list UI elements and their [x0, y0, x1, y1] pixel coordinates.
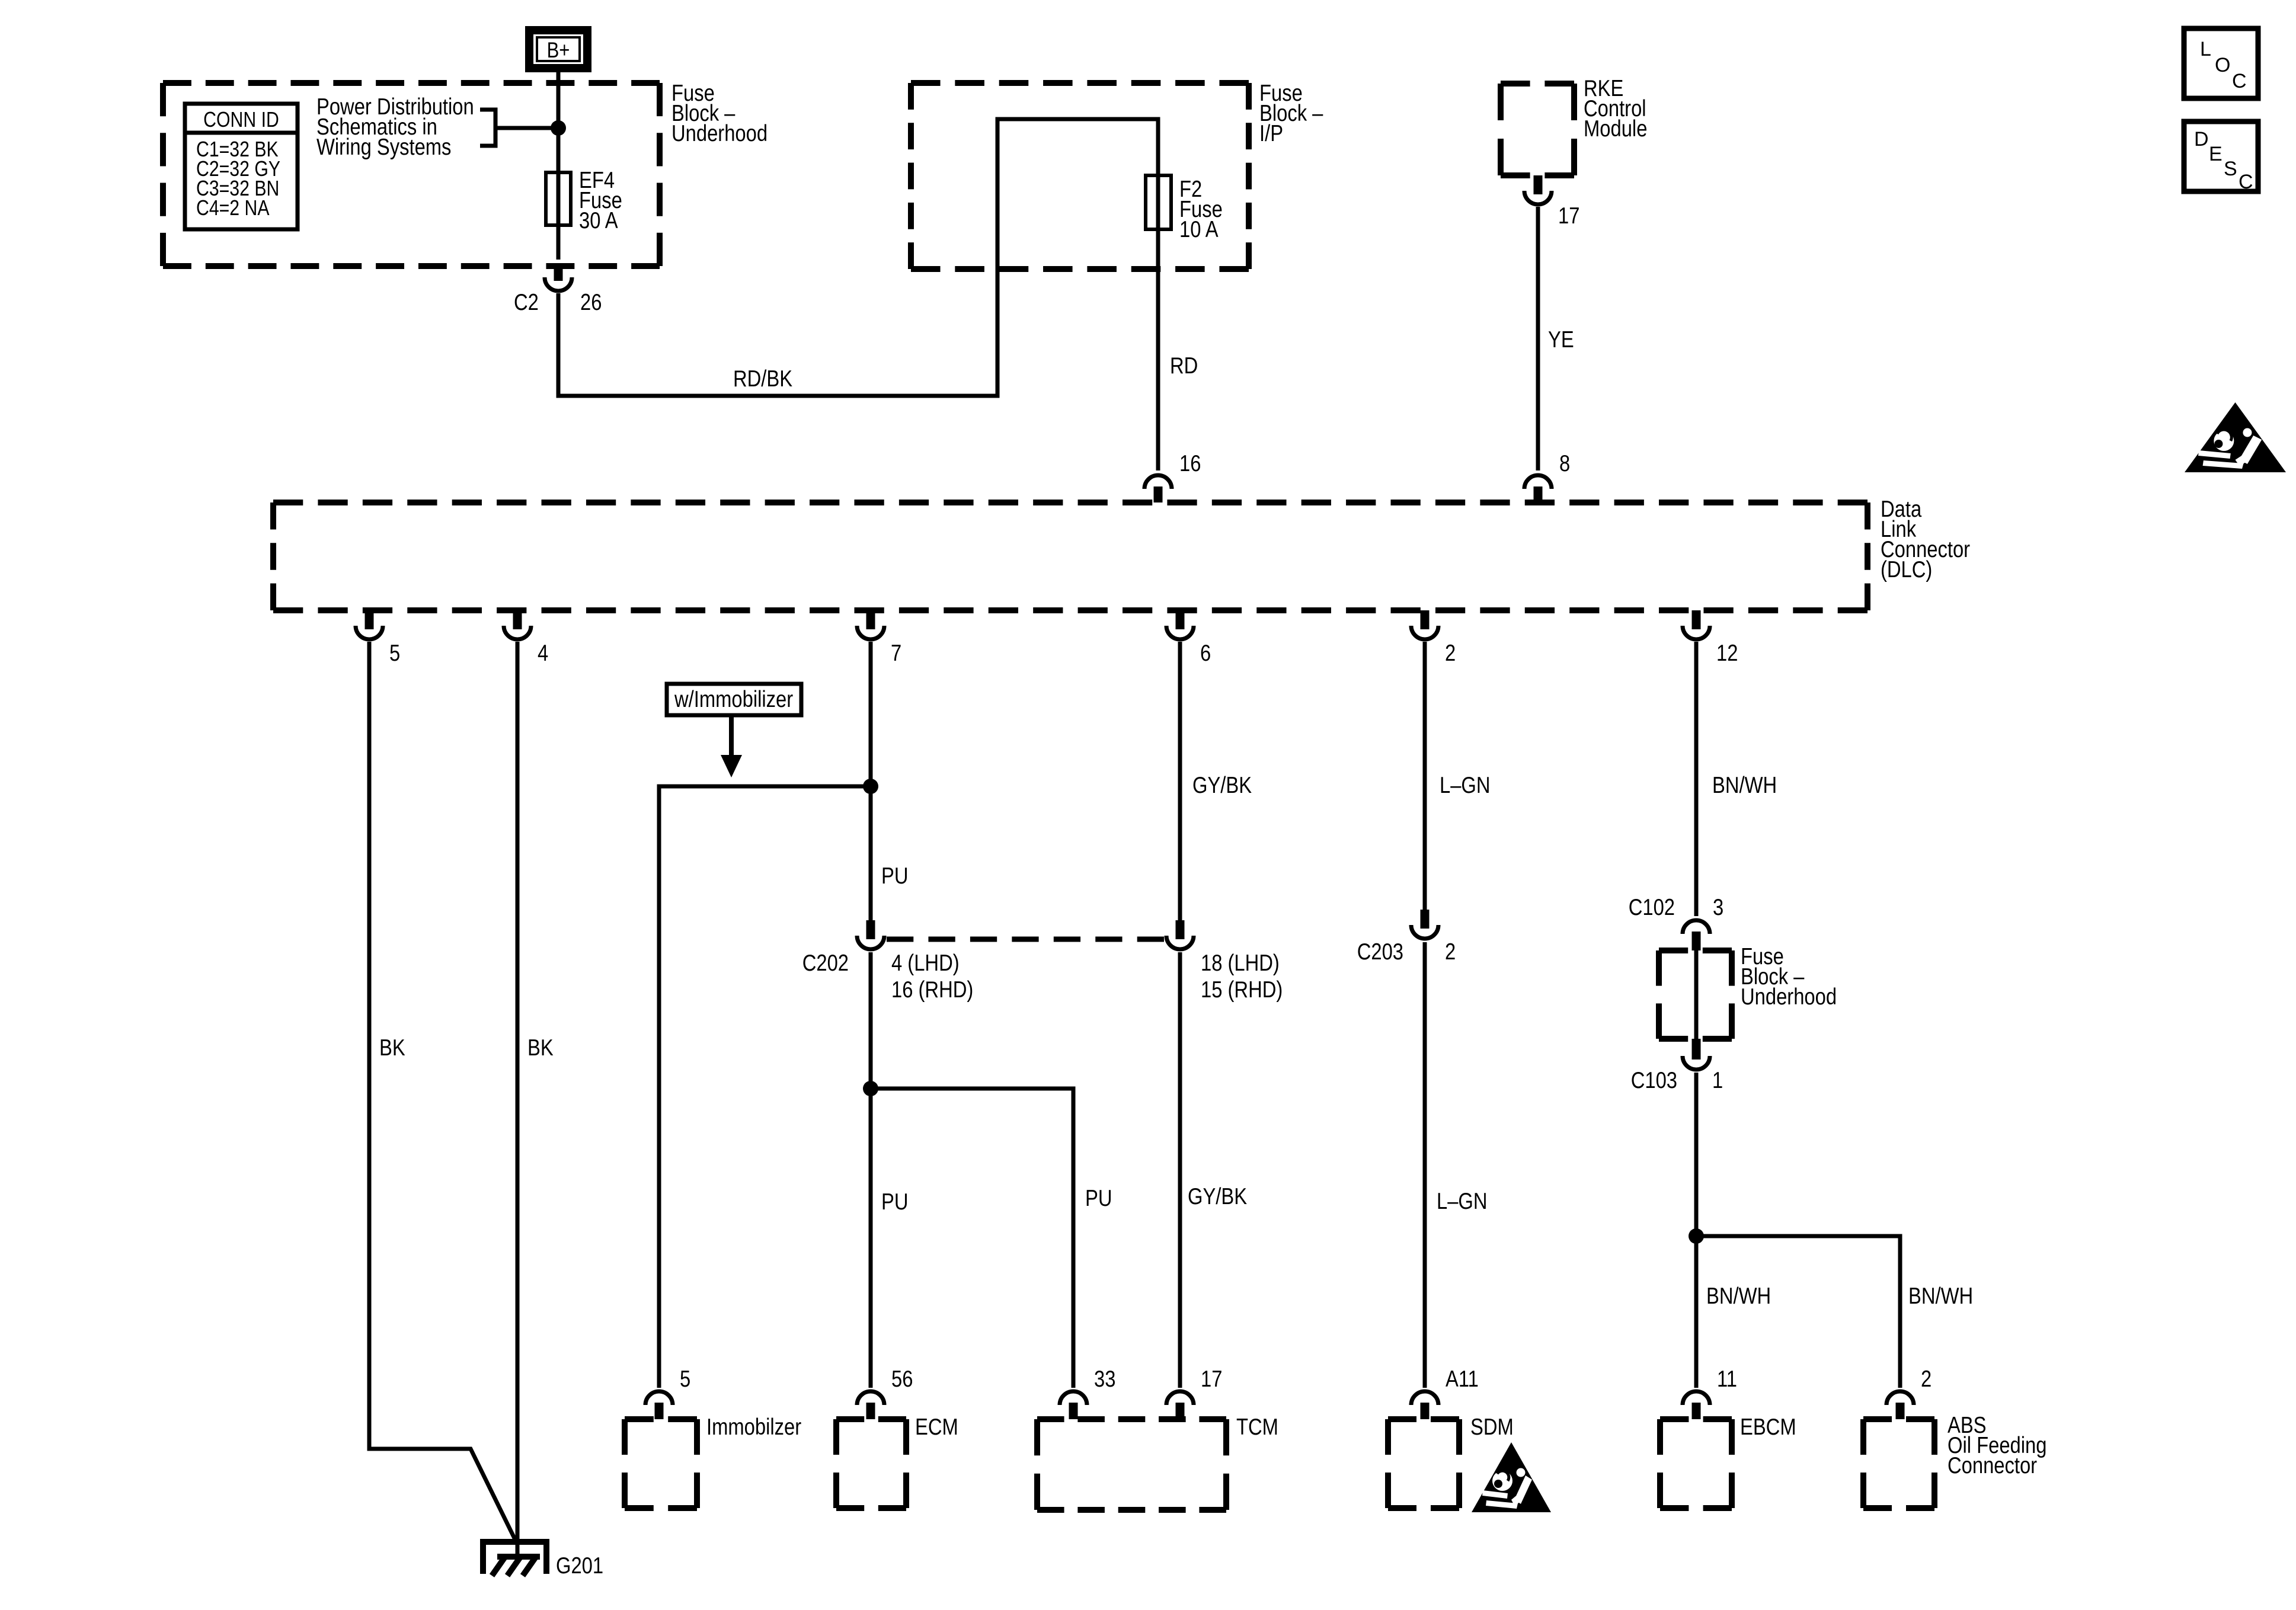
svg-text:GY/BK: GY/BK	[1188, 1183, 1247, 1209]
stub RKE pin 17	[1534, 175, 1543, 194]
junction PU branch	[863, 1081, 878, 1096]
connector ABS pin 2	[1886, 1391, 1914, 1405]
stub DLC pin 16	[1154, 486, 1163, 502]
stub C103	[1692, 1039, 1701, 1060]
connector 18 LHD	[1166, 936, 1194, 949]
connector C202	[857, 936, 884, 949]
svg-text:RD/BK: RD/BK	[733, 365, 792, 391]
battery feed B+ symbol	[529, 30, 587, 68]
note Power Distribution Schematics in Wiring Systems	[316, 93, 474, 159]
svg-text:BN/WH: BN/WH	[1908, 1282, 1973, 1308]
svg-text:12: 12	[1716, 639, 1738, 665]
wire GY/BK to TCM 17	[1178, 952, 1182, 1388]
label C202	[802, 949, 849, 975]
svg-text:TCM: TCM	[1236, 1413, 1278, 1439]
connector C103	[1683, 1056, 1710, 1070]
connector SDM pin A11	[1411, 1391, 1438, 1405]
fuse F2	[1146, 175, 1171, 229]
wire RD/BK	[558, 119, 1158, 470]
label BK right	[527, 1034, 554, 1060]
label Fuse Block I/P	[1259, 79, 1323, 146]
svg-text:FuseBlock –Underhood: FuseBlock –Underhood	[1741, 943, 1837, 1009]
svg-text:RKEControlModule: RKEControlModule	[1584, 75, 1647, 141]
ABS box	[1863, 1419, 1934, 1508]
svg-text:2: 2	[1921, 1365, 1932, 1391]
label PU right	[1085, 1185, 1112, 1211]
ECM box	[836, 1419, 906, 1508]
svg-text:DataLinkConnector(DLC): DataLinkConnector(DLC)	[1881, 495, 1970, 582]
ground G201	[483, 1542, 546, 1574]
svg-text:8: 8	[1559, 450, 1570, 476]
svg-text:5: 5	[389, 639, 400, 665]
connector DLC pin 2	[1411, 626, 1438, 639]
svg-text:17: 17	[1201, 1365, 1222, 1391]
svg-text:56: 56	[891, 1365, 913, 1391]
label RKE Control Module	[1584, 75, 1647, 141]
pin 7	[891, 639, 901, 665]
stub TCM pin 17	[1176, 1403, 1185, 1419]
wire BK from DLC pin 5	[369, 642, 516, 1541]
svg-text:A11: A11	[1446, 1365, 1479, 1391]
pin 17	[1558, 202, 1579, 228]
wire PU from DLC pin 7	[869, 642, 873, 920]
pin 6	[1200, 639, 1211, 665]
wire BN/WH to EBCM	[1694, 1073, 1699, 1388]
connector C102	[1683, 920, 1710, 934]
svg-text:PU: PU	[1085, 1185, 1112, 1211]
svg-text:5: 5	[680, 1365, 690, 1391]
svg-text:C: C	[2232, 70, 2247, 92]
pin C203 2	[1445, 938, 1456, 964]
label G201	[556, 1552, 603, 1578]
svg-text:CONN ID: CONN ID	[203, 108, 279, 132]
pin 4 LHD 16 RHD	[891, 949, 973, 1002]
wire immobilizer branch	[659, 786, 871, 1388]
svg-text:E: E	[2209, 143, 2223, 165]
airbag warning triangle SDM	[1472, 1442, 1551, 1512]
label C103	[1631, 1067, 1677, 1093]
pin 4	[538, 639, 548, 665]
svg-text:C: C	[2239, 171, 2253, 193]
connector DLC pin 6	[1166, 626, 1194, 639]
fuse block underhood box	[163, 83, 660, 266]
label C2	[514, 289, 539, 315]
stub C2	[554, 264, 563, 281]
fuse block underhood small box	[1659, 950, 1732, 1039]
wire PU branch to TCM 33	[871, 1089, 1073, 1388]
svg-text:Immobilzer: Immobilzer	[706, 1413, 801, 1439]
svg-text:FuseBlock –Underhood: FuseBlock –Underhood	[671, 79, 768, 146]
LOC box	[2184, 28, 2258, 98]
pin 2	[1445, 639, 1456, 665]
wire YE	[1536, 207, 1540, 470]
stub DLC pin 12	[1692, 610, 1701, 629]
svg-text:18 (LHD)15 (RHD): 18 (LHD)15 (RHD)	[1201, 949, 1283, 1002]
svg-text:SDM: SDM	[1470, 1413, 1514, 1439]
label L-GN upper	[1440, 772, 1491, 798]
pin label TCM pin 33	[1094, 1365, 1115, 1391]
svg-text:FuseBlock –I/P: FuseBlock –I/P	[1259, 79, 1323, 146]
stub DLC pin 5	[365, 610, 374, 629]
pin label ECM pin 56	[891, 1365, 913, 1391]
label YE	[1548, 326, 1574, 352]
label w/Immobilizer	[674, 686, 793, 712]
svg-text:BK: BK	[527, 1034, 554, 1060]
svg-text:3: 3	[1713, 894, 1723, 920]
connector Immobilizer pin 5	[645, 1391, 673, 1405]
svg-text:F2Fuse10 A: F2Fuse10 A	[1179, 175, 1223, 242]
stub C102	[1692, 932, 1701, 950]
pin label Immobilizer pin 5	[680, 1365, 690, 1391]
stub Immobilizer pin 5	[655, 1403, 664, 1419]
DESC box	[2184, 121, 2258, 191]
pin 8	[1559, 450, 1570, 476]
stub DLC pin 4	[513, 610, 522, 629]
connector EBCM pin 11	[1683, 1391, 1710, 1405]
svg-text:PU: PU	[881, 1188, 908, 1214]
table rows C1-C4	[196, 138, 280, 220]
stub DLC pin 2	[1421, 610, 1430, 629]
wire BN/WH branch to ABS	[1696, 1236, 1900, 1388]
svg-text:L: L	[2200, 38, 2211, 60]
label C203	[1357, 938, 1403, 964]
RKE control module box	[1501, 84, 1574, 175]
label fuse block underhood small	[1741, 943, 1837, 1009]
wire L-GN from DLC pin 2	[1423, 642, 1427, 910]
wire PU C202 to ECM	[869, 952, 873, 1388]
svg-text:17: 17	[1558, 202, 1579, 228]
svg-text:C102: C102	[1629, 894, 1675, 920]
label ECM	[915, 1413, 958, 1439]
stub ECM pin 56	[866, 1403, 875, 1419]
connector DLC pin 8	[1524, 475, 1552, 489]
label ABS Oil Feeding Connector	[1948, 1411, 2046, 1478]
svg-text:11: 11	[1717, 1365, 1737, 1391]
pin label TCM pin 17	[1201, 1365, 1222, 1391]
svg-text:EF4Fuse30 A: EF4Fuse30 A	[579, 167, 622, 233]
w/Immobilizer callout box	[667, 684, 801, 715]
pin label SDM pin A11	[1446, 1365, 1479, 1391]
connector DLC pin 12	[1683, 626, 1710, 639]
svg-text:Power DistributionSchematics i: Power DistributionSchematics inWiring Sy…	[316, 93, 474, 159]
connector DLC pin 4	[504, 626, 531, 639]
fuse block I/P box	[911, 83, 1249, 269]
svg-text:RD: RD	[1170, 352, 1198, 378]
connector DLC pin 16	[1144, 475, 1172, 489]
wire B+ to EF4 fuse	[557, 68, 561, 260]
label Data Link Connector DLC	[1881, 495, 1970, 582]
connector RKE pin 17	[1524, 191, 1552, 204]
pin 18 LHD 15 RHD	[1201, 949, 1283, 1002]
junction at B+ wire	[551, 120, 566, 136]
svg-text:L–GN: L–GN	[1437, 1188, 1488, 1214]
stub TCM pin 33	[1069, 1403, 1078, 1419]
connector TCM pin 33	[1060, 1391, 1087, 1405]
svg-text:7: 7	[891, 639, 901, 665]
label Immobilzer	[706, 1413, 801, 1439]
svg-text:33: 33	[1094, 1365, 1115, 1391]
stub connector 18	[1176, 920, 1185, 939]
CONN ID table frame	[185, 104, 298, 229]
label RD/BK	[733, 365, 792, 391]
stub DLC pin 8	[1534, 486, 1543, 502]
junction BN/WH branch	[1689, 1228, 1704, 1244]
stub SDM pin A11	[1421, 1403, 1430, 1419]
pin 16	[1179, 450, 1201, 476]
svg-text:O: O	[2215, 54, 2230, 76]
fuse EF4	[546, 172, 571, 225]
connector DLC pin 7	[857, 626, 884, 639]
label B+	[547, 39, 570, 63]
label EBCM	[1740, 1413, 1796, 1439]
stub DLC pin 6	[1176, 610, 1185, 629]
bracket from note to wire	[480, 110, 558, 146]
label F2 Fuse 10 A	[1179, 175, 1223, 242]
svg-text:C202: C202	[802, 949, 849, 975]
data link connector DLC box	[273, 502, 1868, 610]
wire L-GN to SDM	[1423, 942, 1427, 1388]
label Fuse Block Underhood	[671, 79, 768, 146]
svg-text:B+: B+	[547, 39, 570, 63]
svg-text:2: 2	[1445, 639, 1456, 665]
svg-text:GY/BK: GY/BK	[1192, 772, 1252, 798]
dashed link C202 to 18	[887, 937, 1164, 942]
label GY/BK lower	[1188, 1183, 1247, 1209]
svg-text:26: 26	[580, 289, 602, 315]
pin 26	[580, 289, 602, 315]
svg-text:16: 16	[1179, 450, 1201, 476]
svg-text:1: 1	[1712, 1067, 1723, 1093]
svg-text:C1=32 BKC2=32 GYC3=32 BNC4=2 N: C1=32 BKC2=32 GYC3=32 BNC4=2 NA	[196, 138, 280, 220]
wire BK from DLC pin 4	[516, 642, 520, 1557]
svg-text:EBCM: EBCM	[1740, 1413, 1796, 1439]
svg-text:2: 2	[1445, 938, 1456, 964]
Immobilizer box	[625, 1419, 697, 1508]
label RD	[1170, 352, 1198, 378]
stub ABS pin 2	[1896, 1403, 1905, 1419]
SDM box	[1388, 1419, 1459, 1508]
svg-text:PU: PU	[881, 862, 908, 888]
label GY/BK upper	[1192, 772, 1252, 798]
svg-text:4 (LHD)16 (RHD): 4 (LHD)16 (RHD)	[891, 949, 973, 1002]
label PU mid	[881, 1188, 908, 1214]
stub C202	[866, 920, 875, 939]
svg-text:BK: BK	[379, 1034, 405, 1060]
svg-text:4: 4	[538, 639, 548, 665]
stub EBCM pin 11	[1692, 1403, 1701, 1419]
svg-text:G201: G201	[556, 1552, 603, 1578]
pin 12	[1716, 639, 1738, 665]
svg-text:BN/WH: BN/WH	[1712, 772, 1777, 798]
label TCM	[1236, 1413, 1278, 1439]
label BK left	[379, 1034, 405, 1060]
svg-text:L–GN: L–GN	[1440, 772, 1491, 798]
svg-text:w/Immobilizer: w/Immobilizer	[674, 686, 793, 712]
svg-text:ABSOil FeedingConnector: ABSOil FeedingConnector	[1948, 1411, 2046, 1478]
svg-text:6: 6	[1200, 639, 1211, 665]
pin label ABS pin 2	[1921, 1365, 1932, 1391]
arrow from w/Immobilizer callout	[729, 715, 734, 759]
pin C103 1	[1712, 1067, 1723, 1093]
junction immobilizer branch	[863, 779, 878, 794]
svg-text:D: D	[2194, 128, 2209, 151]
TCM box	[1037, 1419, 1226, 1510]
label SDM	[1470, 1413, 1514, 1439]
label CONN ID	[203, 108, 279, 132]
svg-text:C203: C203	[1357, 938, 1403, 964]
connector TCM pin 17	[1166, 1391, 1194, 1405]
label BN/WH right	[1908, 1282, 1973, 1308]
svg-text:ECM: ECM	[915, 1413, 958, 1439]
svg-text:YE: YE	[1548, 326, 1574, 352]
svg-text:C2: C2	[514, 289, 539, 315]
label EF4 Fuse 30 A	[579, 167, 622, 233]
pin label EBCM pin 11	[1717, 1365, 1737, 1391]
EBCM box	[1660, 1419, 1732, 1508]
CONN ID table header divider	[185, 131, 298, 135]
svg-text:S: S	[2224, 158, 2237, 180]
pin 5	[389, 639, 400, 665]
label BN/WH upper	[1712, 772, 1777, 798]
svg-text:BN/WH: BN/WH	[1706, 1282, 1771, 1308]
label L-GN lower	[1437, 1188, 1488, 1214]
connector DLC pin 5	[356, 626, 383, 639]
label C102	[1629, 894, 1675, 920]
label PU upper	[881, 862, 908, 888]
connector ECM pin 56	[857, 1391, 884, 1405]
stub C203	[1421, 910, 1430, 929]
connector C203	[1411, 925, 1438, 939]
wire BN/WH from DLC pin 12	[1694, 642, 1699, 916]
svg-text:C103: C103	[1631, 1067, 1677, 1093]
wire inside small fuse block	[1694, 950, 1699, 1039]
airbag warning triangle top right	[2185, 402, 2286, 472]
pin C102 3	[1713, 894, 1723, 920]
wire GY/BK from DLC pin 6	[1178, 642, 1182, 920]
stub DLC pin 7	[866, 610, 875, 629]
label BN/WH left	[1706, 1282, 1771, 1308]
connector C2	[545, 277, 572, 291]
